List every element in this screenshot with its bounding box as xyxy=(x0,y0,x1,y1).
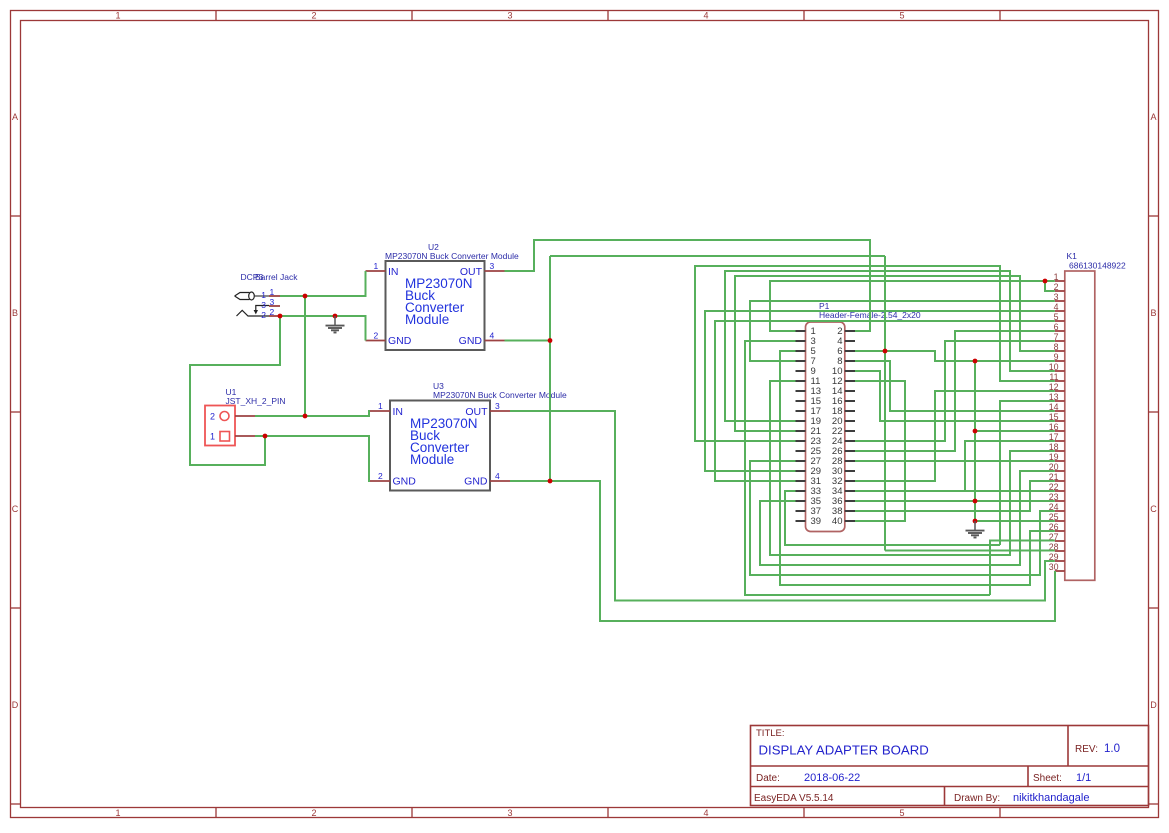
U2 body box xyxy=(386,261,485,350)
svg-text:Sheet:: Sheet: xyxy=(1033,773,1062,784)
K1 pin stubs and numbers xyxy=(1055,280,1065,282)
junction 1045,281 xyxy=(1043,279,1048,284)
svg-text:MP23070N Buck Converter Module: MP23070N Buck Converter Module xyxy=(385,251,519,261)
wire P1.34 to K1.22 with K1.17 tap xyxy=(855,490,1055,492)
wire BJ.2 loop to U1.1 xyxy=(190,316,280,465)
junction 335,316 xyxy=(333,314,338,319)
svg-text:3: 3 xyxy=(495,401,500,411)
svg-text:GND: GND xyxy=(393,476,417,488)
svg-text:3: 3 xyxy=(507,808,512,818)
svg-text:1: 1 xyxy=(210,432,215,442)
svg-text:C: C xyxy=(1150,504,1157,514)
frame row ticks left/right xyxy=(11,215,21,217)
svg-text:EasyEDA V5.5.14: EasyEDA V5.5.14 xyxy=(754,793,834,804)
svg-text:2: 2 xyxy=(374,331,379,341)
wire vertical BJ.1 to U1.2 net xyxy=(304,296,306,416)
wire P1.28 to K1.19 xyxy=(855,460,1055,462)
svg-text:Drawn By:: Drawn By: xyxy=(954,793,1000,804)
svg-text:D: D xyxy=(12,700,19,710)
junction 975,431 xyxy=(973,429,978,434)
svg-text:1: 1 xyxy=(115,11,120,21)
P1 pin stubs and numbers xyxy=(796,330,806,332)
svg-text:1/1: 1/1 xyxy=(1076,772,1091,784)
junction 550,481 xyxy=(548,479,553,484)
svg-text:MP23070N Buck Converter Module: MP23070N Buck Converter Module xyxy=(433,390,567,400)
wire P1.26 to K1.6 xyxy=(855,331,1055,451)
junction 265,436 xyxy=(263,434,268,439)
svg-text:GND: GND xyxy=(388,335,412,347)
title block xyxy=(751,726,1149,806)
wire U2.OUT to P1.2 xyxy=(505,240,871,331)
wire BJ.1 to U2.IN xyxy=(280,271,366,296)
junction 975,501 xyxy=(973,499,978,504)
wire P1.7 to K1.3 xyxy=(750,301,1055,361)
wire P1.1 to K1.1 xyxy=(770,281,1055,331)
wire P1.8 to K1.14 xyxy=(855,361,1055,411)
svg-text:D: D xyxy=(1150,700,1157,710)
svg-text:Barrel Jack: Barrel Jack xyxy=(255,272,298,282)
svg-text:2: 2 xyxy=(378,471,383,481)
wire P1.5 to K1.26 xyxy=(780,351,1055,585)
wire P1.3 rail y595 xyxy=(745,341,990,595)
svg-text:GND: GND xyxy=(459,335,483,347)
svg-text:3: 3 xyxy=(261,300,266,310)
wire P1.32 to K1.12 xyxy=(855,391,1055,481)
svg-text:1: 1 xyxy=(378,401,383,411)
wire U2.GND4 to GND vertical xyxy=(505,340,551,342)
svg-text:1: 1 xyxy=(374,261,379,271)
svg-text:K1: K1 xyxy=(1067,251,1078,261)
svg-text:4: 4 xyxy=(703,11,708,21)
wire P1.21 to K1.8 xyxy=(735,276,1055,431)
svg-text:3: 3 xyxy=(507,11,512,21)
U3 pin stubs xyxy=(370,410,390,412)
ground symbol near K1 xyxy=(966,521,985,538)
barrel jack pin2 chevron lead xyxy=(237,310,270,316)
U1 pin1 square xyxy=(220,432,230,442)
U1 pin stubs xyxy=(235,415,255,417)
wire GND x975 vertical xyxy=(974,361,976,523)
wire P1.10 to K1.15 xyxy=(855,371,1055,421)
svg-text:5: 5 xyxy=(899,11,904,21)
U1 body box xyxy=(205,406,235,446)
svg-text:2: 2 xyxy=(261,310,266,320)
svg-text:C: C xyxy=(12,504,19,514)
svg-text:4: 4 xyxy=(703,808,708,818)
junction 975,521 xyxy=(973,519,978,524)
svg-text:nikitkhandagale: nikitkhandagale xyxy=(1013,792,1089,804)
svg-text:3: 3 xyxy=(270,297,275,307)
svg-text:TITLE:: TITLE: xyxy=(756,728,785,739)
svg-text:A: A xyxy=(12,112,18,122)
wire GND to K1.28 xyxy=(885,550,1055,552)
wire P1.31 to K1.5 xyxy=(715,321,1055,481)
svg-text:1: 1 xyxy=(115,808,120,818)
wire GND bottom run to K1.30 xyxy=(550,481,1055,621)
svg-text:30: 30 xyxy=(1049,562,1059,572)
wire P1.27 to K1.24 xyxy=(750,461,1055,575)
svg-text:40: 40 xyxy=(832,516,843,527)
svg-text:IN: IN xyxy=(388,266,399,278)
wire P1.38 to K1.21 xyxy=(855,481,1055,511)
barrel jack pin1 lead xyxy=(255,295,270,297)
svg-text:2: 2 xyxy=(270,307,275,317)
wire U1.1 to U3.GND xyxy=(255,436,370,481)
svg-text:GND: GND xyxy=(464,476,488,488)
svg-text:4: 4 xyxy=(495,471,500,481)
junction 885,351 xyxy=(883,349,888,354)
svg-text:4: 4 xyxy=(490,331,495,341)
junction 550,340.5 xyxy=(548,338,553,343)
svg-text:1: 1 xyxy=(270,287,275,297)
P1 body box xyxy=(806,322,845,532)
svg-text:2018-06-22: 2018-06-22 xyxy=(804,772,860,784)
barrel jack symbol body xyxy=(235,293,250,300)
wire GND top rail y256 xyxy=(550,255,885,257)
svg-text:3: 3 xyxy=(490,261,495,271)
svg-text:B: B xyxy=(1150,308,1156,318)
svg-text:686130148922: 686130148922 xyxy=(1069,261,1126,271)
frame column ticks top/bottom xyxy=(215,11,217,21)
wire P1.33 rail y545 xyxy=(785,491,1000,545)
U1 pin2 circle xyxy=(220,412,229,421)
wire K1.13 riser xyxy=(1000,401,1055,545)
svg-text:A: A xyxy=(1150,112,1156,122)
wire K1.1 to K1.2 link xyxy=(1045,281,1055,291)
svg-text:Module: Module xyxy=(405,312,449,327)
wire GND x885 riser xyxy=(884,256,886,551)
wire K1.27 riser xyxy=(990,541,1055,596)
wire U3.GND4 junction xyxy=(510,480,550,482)
svg-text:Date:: Date: xyxy=(756,773,780,784)
wire P1.11 to K1.18 xyxy=(770,381,1055,555)
junction 975,361 xyxy=(973,359,978,364)
wire P1.35 to K1.20 xyxy=(760,471,1055,565)
wire P1.23 to K1.11 xyxy=(695,266,1055,441)
wire GND to K1.16 xyxy=(975,430,1055,432)
wire K1.17 tap xyxy=(965,441,1055,491)
wire P1.12 to P1.40 xyxy=(855,381,905,521)
svg-text:B: B xyxy=(12,308,18,318)
wire U1.2 to U3.IN xyxy=(255,411,370,416)
svg-text:REV:: REV: xyxy=(1075,744,1098,755)
svg-text:5: 5 xyxy=(899,808,904,818)
wire P1.19 to K1.10 xyxy=(725,271,1055,421)
wire P1.24 to K1.7 xyxy=(855,341,1055,441)
barrel jack pin stubs xyxy=(269,295,280,297)
svg-text:IN: IN xyxy=(393,406,404,418)
svg-text:1: 1 xyxy=(261,290,266,300)
wire P1.6 to GND dogleg to K1.9 xyxy=(855,351,1055,361)
ground symbol near barrel jack xyxy=(326,316,345,333)
junction 280,316 xyxy=(278,314,283,319)
wire P1.36 GND to K1.23 xyxy=(855,500,1055,502)
K1 body box xyxy=(1065,271,1095,580)
wire GND vertical x550 xyxy=(549,256,551,481)
svg-text:39: 39 xyxy=(811,516,822,527)
U2 pin stubs xyxy=(366,270,386,272)
svg-text:JST_XH_2_PIN: JST_XH_2_PIN xyxy=(226,396,286,406)
wire BJ.2 to U2.GND xyxy=(280,316,366,341)
barrel jack pin3 switch lead xyxy=(256,306,269,311)
svg-text:2: 2 xyxy=(311,808,316,818)
svg-text:Module: Module xyxy=(410,452,454,467)
wire U3.OUT to K1.29 xyxy=(510,411,1055,601)
U3 body box xyxy=(390,401,490,491)
svg-text:1.0: 1.0 xyxy=(1104,743,1120,755)
wire P1.29 to K1.4 xyxy=(705,311,1055,471)
junction 305,416 xyxy=(303,414,308,419)
svg-text:2: 2 xyxy=(210,412,215,422)
svg-text:DISPLAY ADAPTER BOARD: DISPLAY ADAPTER BOARD xyxy=(759,743,929,758)
junction 305,296 xyxy=(303,294,308,299)
wire GND to K1.25 xyxy=(975,520,1055,522)
svg-text:2: 2 xyxy=(311,11,316,21)
